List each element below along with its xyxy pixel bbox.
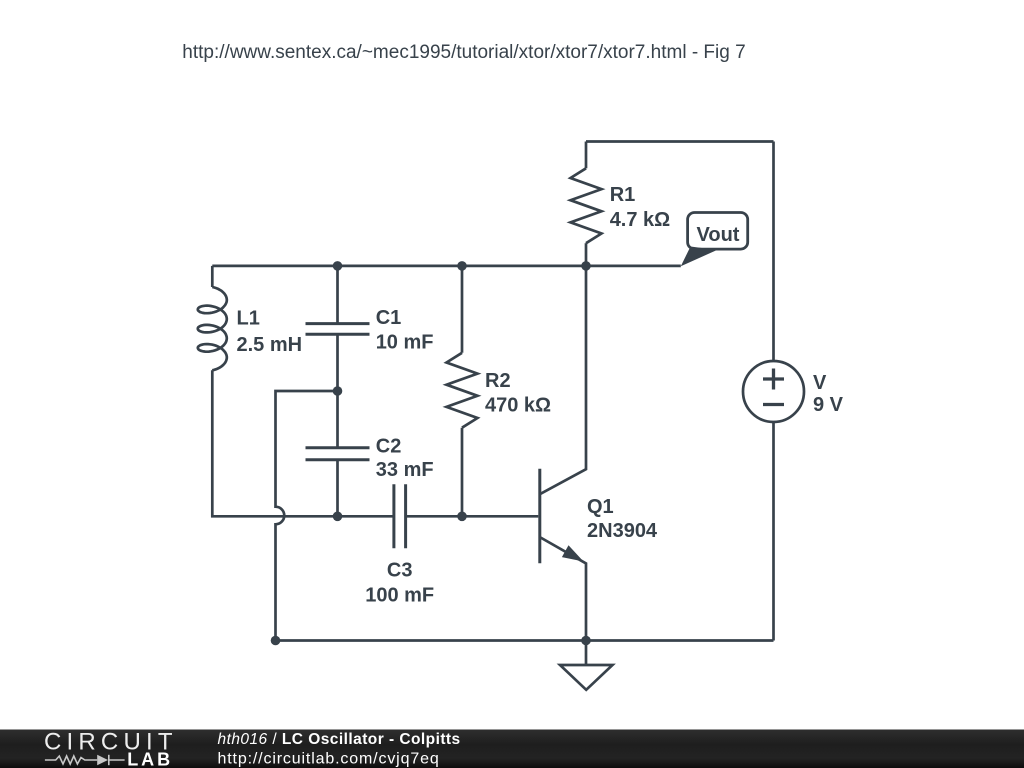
svg-text:L1: L1 bbox=[237, 308, 260, 330]
node dot C1-C2 junction bbox=[333, 386, 343, 396]
wire R2 bottom lead bbox=[461, 428, 464, 517]
transistor Q1 collector bbox=[541, 266, 587, 494]
capacitor C3 bbox=[394, 484, 406, 548]
svg-text:R2: R2 bbox=[485, 370, 511, 392]
transistor Q1 emitter bbox=[541, 538, 587, 641]
wire R2 top lead bbox=[461, 266, 464, 353]
wire main node Vout rail bbox=[212, 265, 681, 268]
node dot C2 bottom bbox=[333, 512, 343, 522]
svg-text:100 mF: 100 mF bbox=[365, 585, 434, 607]
wire C2 top lead bbox=[336, 391, 339, 448]
node dot R1 bottom bbox=[581, 261, 591, 271]
svg-text:hth016 / LC Oscillator - Colpi: hth016 / LC Oscillator - Colpitts bbox=[218, 731, 461, 748]
wire top rail bbox=[586, 140, 774, 143]
capacitor C1 bbox=[306, 324, 370, 335]
wire right rail upper bbox=[772, 142, 775, 362]
wire C2 bottom lead bbox=[336, 460, 339, 517]
voltage source minus bbox=[763, 403, 784, 406]
svg-text:2N3904: 2N3904 bbox=[587, 520, 658, 542]
wire L1 top lead bbox=[211, 266, 214, 287]
Vout flag tail bbox=[681, 247, 717, 267]
resistor R1 bbox=[571, 168, 602, 243]
wire C1-C2 junction to left connector with hop bbox=[276, 391, 338, 641]
wire right rail lower bbox=[772, 422, 775, 641]
node dot R2 top bbox=[457, 261, 467, 271]
node dot R2 bottom bbox=[457, 512, 467, 522]
node dot bottom left corner bbox=[271, 636, 281, 646]
wire C3 right lead to Q1 base bbox=[406, 515, 539, 518]
svg-text:http://circuitlab.com/cvjq7eq: http://circuitlab.com/cvjq7eq bbox=[218, 751, 440, 768]
svg-text:LAB: LAB bbox=[127, 749, 173, 768]
svg-text:33 mF: 33 mF bbox=[376, 459, 434, 481]
transistor Q1 emitter arrow bbox=[562, 545, 584, 561]
svg-text:http://www.sentex.ca/~mec1995/: http://www.sentex.ca/~mec1995/tutorial/x… bbox=[182, 42, 745, 63]
svg-text:R1: R1 bbox=[610, 184, 636, 206]
wire bottom rail bbox=[276, 639, 774, 642]
transistor Q1 base bar bbox=[538, 469, 541, 564]
wire L1 bottom lead bbox=[212, 370, 394, 516]
voltage source plus bbox=[763, 369, 784, 405]
svg-text:C3: C3 bbox=[387, 560, 413, 582]
node dot ground bbox=[581, 636, 591, 646]
svg-text:9 V: 9 V bbox=[813, 394, 844, 416]
wire R1 bottom lead bbox=[585, 243, 588, 266]
inductor L1 bbox=[198, 287, 227, 370]
resistor R2 bbox=[447, 353, 478, 428]
wire C1 bottom lead bbox=[336, 334, 339, 391]
svg-text:10 mF: 10 mF bbox=[376, 332, 434, 354]
svg-text:470 kΩ: 470 kΩ bbox=[485, 395, 551, 417]
svg-text:C1: C1 bbox=[376, 307, 402, 329]
svg-text:2.5 mH: 2.5 mH bbox=[237, 334, 303, 356]
capacitor C2 bbox=[306, 448, 370, 460]
svg-text:Vout: Vout bbox=[697, 224, 740, 246]
wire R1 top lead bbox=[585, 142, 588, 169]
wire C1 top lead bbox=[336, 266, 339, 324]
ground stub bbox=[585, 641, 588, 666]
svg-text:C2: C2 bbox=[376, 436, 402, 458]
svg-text:4.7 kΩ: 4.7 kΩ bbox=[610, 209, 671, 231]
Vout flag box bbox=[688, 213, 748, 250]
svg-text:V: V bbox=[813, 372, 827, 394]
voltage source V circle bbox=[743, 361, 804, 422]
logo resistor-diode drawing bbox=[45, 755, 125, 765]
node dot C1 top bbox=[333, 261, 343, 271]
footer bar bbox=[0, 730, 1024, 768]
svg-text:Q1: Q1 bbox=[587, 496, 614, 518]
ground symbol bbox=[560, 665, 613, 690]
